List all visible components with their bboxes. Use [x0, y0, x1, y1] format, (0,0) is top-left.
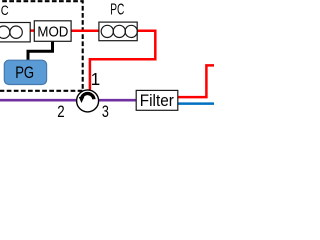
svg-text:2: 2 [57, 102, 64, 120]
wire (black electrical) MOD to PG [28, 41, 53, 61]
svg-text:3: 3 [102, 102, 109, 120]
wire (red fiber) PC2 to circulator port 1 [90, 31, 155, 91]
wire (blue output) from Filter to right edge [178, 102, 215, 105]
modulator MOD [34, 21, 71, 42]
polarization controller PC2 [99, 22, 137, 41]
wire (red fiber) MOD to PC2 [71, 30, 100, 33]
dashed enclosure box [0, 1, 83, 91]
svg-text:PG: PG [15, 64, 34, 82]
wire (purple) into circulator port 2 and out port 3 to Filter [0, 99, 137, 102]
svg-text:PC: PC [110, 2, 124, 19]
polarization controller PC1 (cut off at left edge) [0, 23, 30, 42]
pulse generator PG [4, 60, 46, 84]
Filter box [136, 90, 178, 110]
svg-text:Filter: Filter [140, 91, 174, 110]
svg-text:1: 1 [91, 69, 101, 89]
svg-text:MOD: MOD [37, 24, 68, 41]
wire (red fiber, pump input from right edge into Filter) [178, 65, 215, 97]
svg-text:C: C [1, 3, 9, 18]
circulator (circle with CCW arrow) [77, 90, 99, 112]
wire (red fiber) PC1 to MOD [29, 29, 35, 32]
